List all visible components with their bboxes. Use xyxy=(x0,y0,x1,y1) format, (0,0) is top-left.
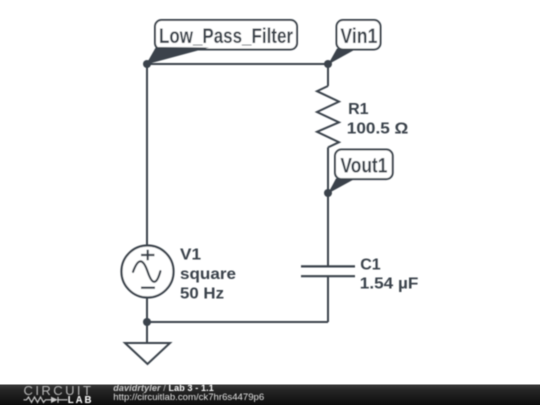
svg-text:C1: C1 xyxy=(360,257,381,274)
svg-text:50 Hz: 50 Hz xyxy=(180,285,224,302)
svg-text:1.54 µF: 1.54 µF xyxy=(360,276,419,293)
svg-text:Vin1: Vin1 xyxy=(340,25,377,48)
svg-text:http://circuitlab.com/ck7hr6s4: http://circuitlab.com/ck7hr6s4479p6 xyxy=(113,392,264,403)
svg-text:R1: R1 xyxy=(348,101,369,118)
svg-text:V1: V1 xyxy=(180,246,201,263)
svg-text:square: square xyxy=(180,266,236,283)
svg-text:Low_Pass_Filter: Low_Pass_Filter xyxy=(159,25,293,48)
svg-text:Vout1: Vout1 xyxy=(340,155,387,178)
svg-text:100.5 Ω: 100.5 Ω xyxy=(347,121,409,138)
svg-text:LAB: LAB xyxy=(68,395,94,405)
